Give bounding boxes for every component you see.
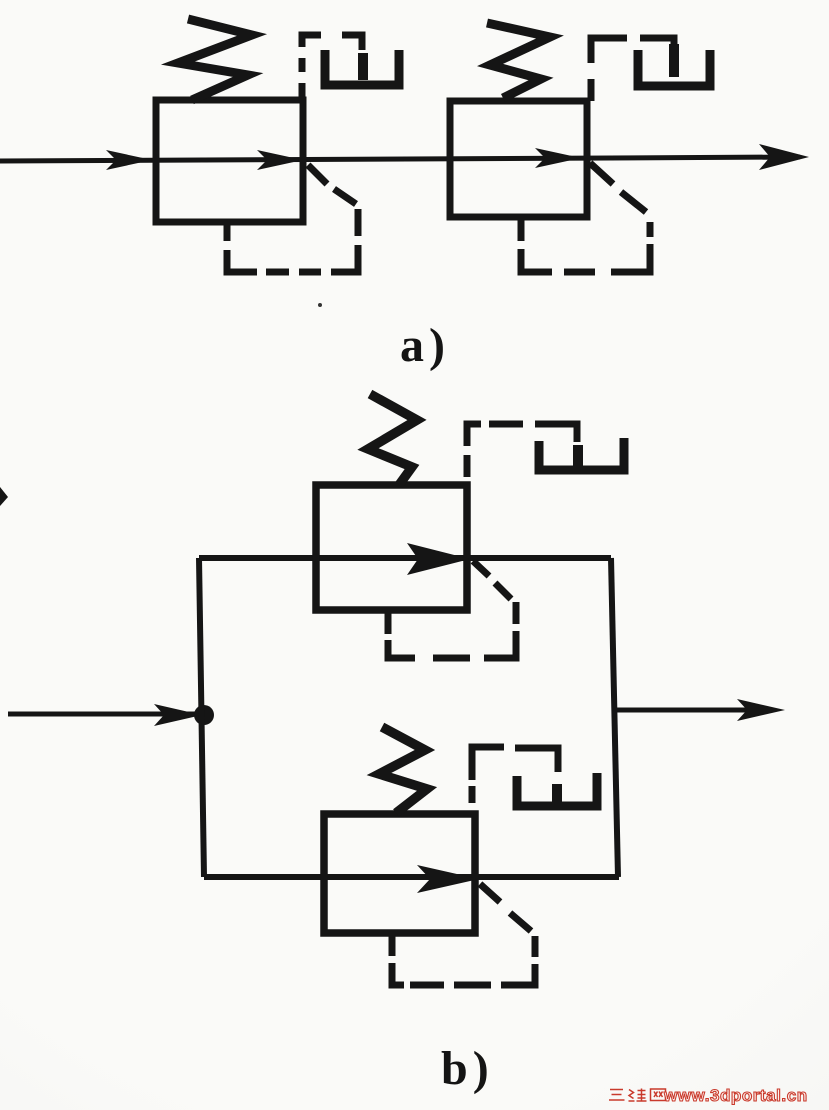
drain pilot line of valve V2 (dashed)	[591, 38, 674, 101]
drain pilot line of valve V1 (dashed)	[302, 35, 362, 100]
glyph WANG	[651, 1089, 666, 1101]
arrowhead at output of circuit b	[737, 699, 785, 721]
tank symbol T1	[325, 50, 399, 85]
wire: bottom branch line through valve V4	[204, 874, 619, 880]
spring of valve V4	[379, 727, 427, 813]
feedback pilot loop of valve V3 (dashed)	[388, 561, 516, 658]
drain tick into tank T3	[573, 445, 583, 466]
wire: main flow line of circuit a	[0, 157, 800, 161]
spring of valve V3	[368, 394, 417, 485]
feedback pilot loop of valve V2 (dashed)	[521, 163, 650, 272]
drain pilot line of valve V3 (dashed)	[467, 424, 577, 477]
stray mark at left edge	[0, 487, 8, 506]
valve V3 body box	[316, 485, 467, 610]
feedback pilot loop of valve V4 (dashed)	[392, 884, 535, 985]
valve V2 body box	[450, 101, 587, 217]
drain tick into tank T1	[358, 53, 368, 80]
wire: input line of circuit b	[8, 712, 199, 717]
spring of valve V1	[178, 19, 252, 100]
valve V1 body box	[156, 100, 303, 222]
drain tick into tank T4	[552, 784, 562, 805]
arrowhead inside valve V3	[407, 543, 470, 575]
arrowhead inside valve 2	[535, 148, 581, 168]
tank symbol T3	[539, 438, 624, 470]
arrowhead inside valve 1	[257, 150, 303, 170]
spring of valve V2	[487, 23, 550, 98]
junction node dot of circuit b	[194, 705, 214, 725]
drain pilot line of valve V4 (dashed)	[472, 747, 558, 803]
arrowhead at input of circuit b	[154, 704, 202, 726]
label b)	[441, 1041, 494, 1096]
glyph SAN	[609, 1090, 625, 1101]
tank symbol T4	[517, 773, 597, 806]
feedback pilot loop of valve V1 (dashed)	[227, 165, 358, 272]
arrowhead at right end of line a	[759, 144, 809, 170]
watermark: red site mark bottom-right	[607, 1086, 667, 1106]
label a)	[400, 318, 450, 373]
wire: top branch line through valve V3	[199, 555, 611, 561]
watermark url text	[664, 1086, 808, 1106]
wire: left vertical branch of circuit b	[199, 558, 204, 877]
glyph WEI	[629, 1089, 647, 1102]
arrowhead inside valve V4	[417, 865, 479, 893]
wire: right vertical branch of circuit b	[611, 558, 618, 877]
wire: output line of circuit b	[615, 708, 765, 713]
arrowhead into valve 1	[106, 150, 152, 170]
ink speck	[318, 303, 322, 307]
valve V4 body box	[324, 814, 475, 933]
drain tick into tank T2	[669, 44, 679, 77]
tank symbol T2	[638, 50, 710, 86]
